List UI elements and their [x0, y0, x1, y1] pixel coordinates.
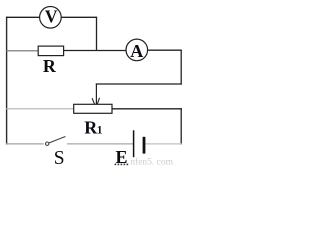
- wire right vertical lower: [180, 108, 182, 144]
- wire bottom left: [6, 143, 44, 145]
- rheostat slider arrow: [92, 84, 99, 109]
- wire left vertical: [6, 17, 8, 145]
- battery E: [115, 130, 144, 167]
- ammeter A: [126, 39, 148, 61]
- wire R row left: [6, 50, 39, 52]
- wire A right: [148, 49, 182, 51]
- svg-text:A: A: [130, 41, 143, 61]
- wire junction vertical: [96, 17, 98, 51]
- wire rheostat right: [112, 108, 182, 110]
- svg-text:S: S: [54, 148, 65, 167]
- voltmeter V: [40, 6, 62, 28]
- svg-text:V: V: [45, 7, 58, 27]
- wire top left: [6, 16, 40, 18]
- svg-text:nfen5. com: nfen5. com: [130, 157, 173, 167]
- rheostat R1: [74, 104, 112, 137]
- wire slider top: [96, 83, 182, 85]
- wire bottom right (light): [146, 143, 182, 145]
- switch S: [46, 137, 66, 170]
- wire rheostat left (light): [6, 108, 74, 110]
- wire R row right: [64, 50, 127, 52]
- svg-text:R: R: [43, 56, 57, 76]
- wire right vertical upper: [180, 50, 182, 85]
- resistor R: [38, 46, 63, 76]
- svg-text:1: 1: [97, 125, 103, 137]
- wire top right: [61, 16, 97, 18]
- wire bottom middle: [67, 143, 133, 145]
